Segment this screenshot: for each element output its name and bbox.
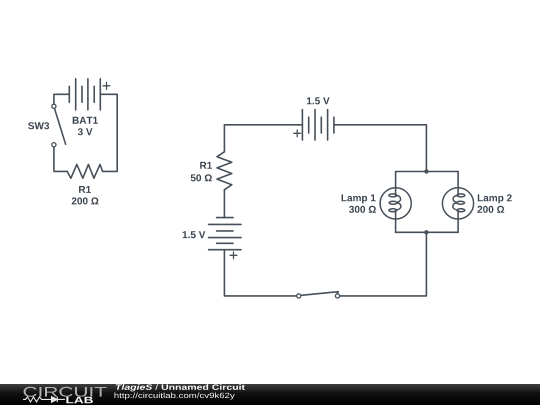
battery V1 (1.5 V, left) (209, 218, 241, 259)
resistor R1 (right circuit, 50 ohm) (217, 152, 232, 190)
wire from lamp 2 bottom to bottom rail (457, 211, 459, 233)
logo wordmark LAB (66, 397, 93, 404)
wire into lamp 2 top (457, 172, 459, 196)
wire from left battery top to resistor R1 bottom (223, 190, 225, 218)
switch SW3 (52, 104, 66, 147)
wire from right-circuit resistor top to top battery (224, 125, 302, 152)
wire from resistor R1 to SW3 bottom terminal (54, 147, 67, 172)
lamp L2 (Lamp 2) (442, 188, 473, 219)
label R1 (left circuit) (79, 186, 91, 193)
wire from top battery to top-right corner down to lamp rail (334, 125, 427, 172)
node junction bottom of lamps (424, 230, 428, 234)
label 3 V (78, 128, 93, 135)
label 1.5 V (left battery) (183, 231, 206, 238)
label 200 ohm (lamp 2) (477, 206, 504, 213)
footer bar (0, 384, 540, 405)
footer title TlagieS / Unnamed Circuit (116, 384, 245, 391)
CircuitLab logo resistor-diode symbol (23, 397, 65, 403)
node junction top of lamps (424, 169, 428, 173)
wire from switch left to bottom-left corner and up to left battery (224, 250, 296, 296)
label 1.5 V (top battery) (307, 97, 330, 104)
battery BAT1 (69, 79, 110, 110)
label 200 ohm (left circuit) (72, 197, 99, 204)
wire from lamp rail down to bottom-right corner and left to switch (339, 232, 426, 296)
label 50 ohm (191, 174, 212, 181)
label 300 ohm (349, 206, 376, 213)
wire lamp bottom rail (396, 231, 459, 233)
label BAT1 (73, 117, 98, 124)
wire lamp top rail (396, 171, 459, 173)
resistor R1 (left circuit, 200 ohm) (67, 164, 103, 178)
wire from SW3 top terminal to BAT1 negative plate (54, 94, 69, 104)
wire from BAT1 positive plate right and down to resistor R1 (100, 94, 117, 171)
logo wordmark CIRCUIT (24, 387, 107, 397)
label Lamp 1 (342, 194, 376, 203)
label SW3 (28, 122, 49, 129)
lamp L1 (Lamp 1) (380, 188, 411, 219)
battery V2 (1.5 V, top) (294, 110, 334, 140)
footer url (115, 393, 235, 400)
label Lamp 2 (478, 194, 512, 203)
wire into lamp 1 top (395, 172, 397, 196)
switch SW1 (bottom) (297, 292, 340, 298)
wire from lamp 1 bottom to bottom rail (395, 211, 397, 233)
label R1 (right circuit) (200, 162, 212, 169)
